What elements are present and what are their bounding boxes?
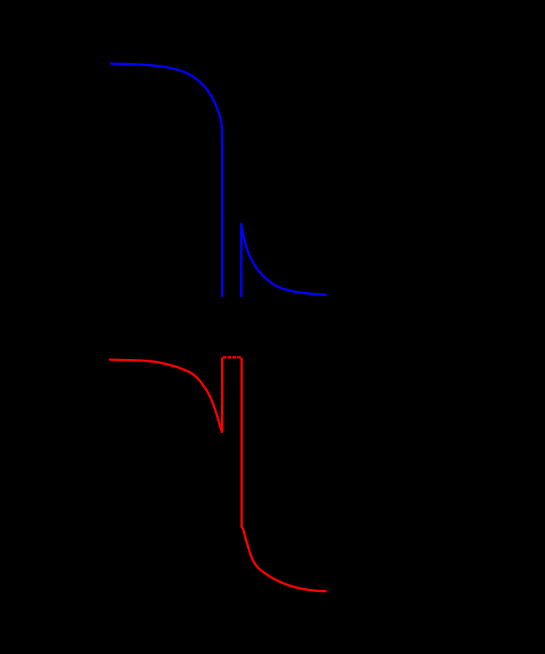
red curve main branch (flat, dip to sharp V, vertical rise to clip top y=357.5)	[109, 358, 222, 433]
red dashed clip segment along top of lower axes	[223, 356, 242, 358]
blue curve spike branch (rises from clip bottom, peak, exponential-like decay tail)	[241, 224, 326, 297]
red curve right branch (vertical drop from clip top, curve out to flat tail)	[242, 358, 327, 592]
blue curve main branch (flat top, knee, vertical plunge clipped at y=297)	[110, 64, 222, 298]
